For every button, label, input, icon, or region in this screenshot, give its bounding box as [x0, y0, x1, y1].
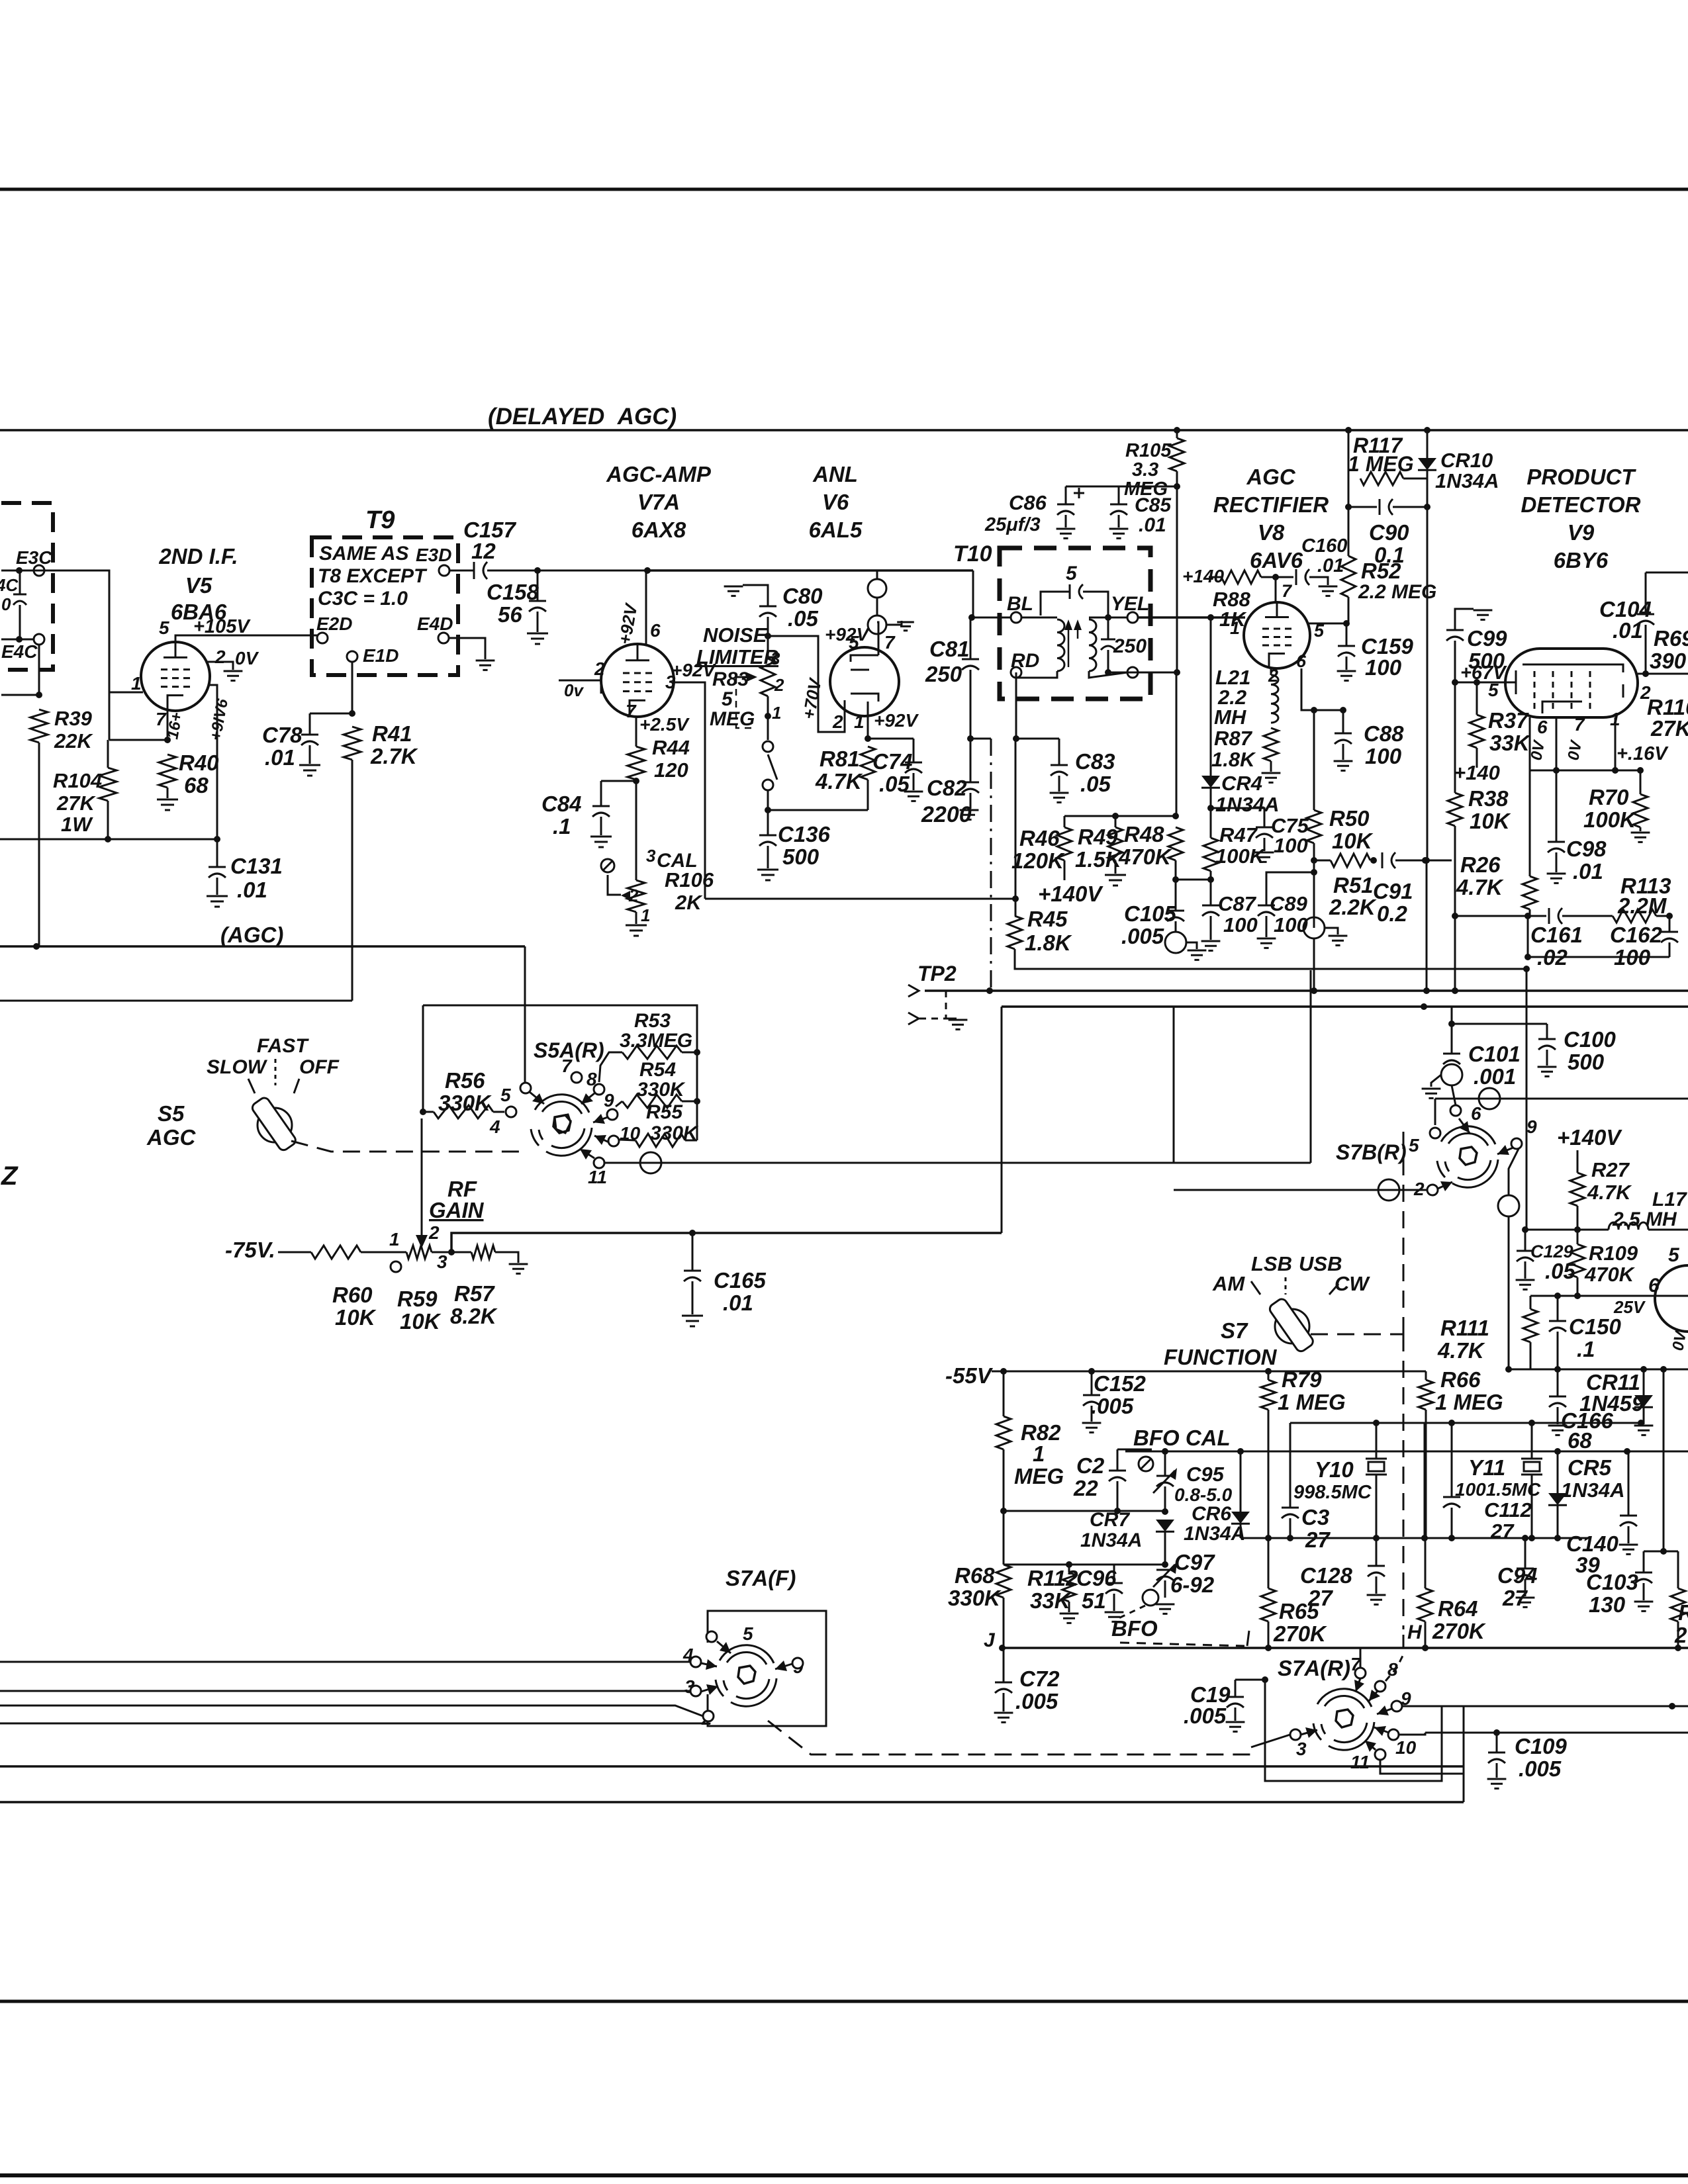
wire R38 lower — [1454, 826, 1456, 916]
label R83 — [712, 668, 749, 690]
wire V9 pin2 — [1638, 673, 1688, 675]
label R54 — [639, 1059, 676, 1081]
label C160 — [1301, 535, 1347, 557]
svg-text:+92V: +92V — [874, 710, 919, 731]
wire 2211b riser — [1463, 1774, 1465, 1802]
resistor R59 pot — [406, 1246, 432, 1259]
label ANL — [812, 462, 858, 486]
wire S7AR 10 out — [1399, 1733, 1425, 1735]
label C100 value — [1568, 1050, 1605, 1074]
junction R51 C91 — [1370, 857, 1377, 864]
svg-text:11: 11 — [588, 1167, 607, 1187]
wire C159 lead — [1346, 623, 1348, 646]
wire E3C to V5 grid — [1, 570, 143, 692]
junction R54 — [694, 1098, 700, 1105]
wire V6 jack link — [876, 598, 878, 615]
svg-text:E3C: E3C — [16, 547, 52, 568]
label S7 — [1221, 1318, 1248, 1343]
ground TP2 — [949, 1020, 968, 1029]
resistor R68 — [996, 1565, 1011, 1598]
wire C19 lower — [1235, 1707, 1237, 1721]
junction R82 top — [1000, 1368, 1007, 1375]
label pin 1 V5 — [131, 673, 142, 694]
wire R105 bottom — [1176, 471, 1178, 672]
svg-text:C97: C97 — [1174, 1550, 1215, 1574]
label R53 value — [620, 1030, 692, 1052]
arrow S7AF 9 — [775, 1661, 792, 1671]
label R66 value — [1435, 1390, 1503, 1414]
resistor R87 — [1264, 728, 1278, 761]
svg-text:5: 5 — [1066, 563, 1078, 584]
label CR11 type — [1579, 1391, 1644, 1416]
resistor R66 — [1419, 1380, 1433, 1410]
junction R50 top — [1311, 707, 1317, 713]
wire C83 lead — [1058, 739, 1060, 765]
wire box bottom V9 — [1528, 956, 1669, 958]
wire R109 top — [1577, 1230, 1579, 1244]
svg-text:10: 10 — [1395, 1737, 1417, 1758]
svg-text:1: 1 — [772, 703, 781, 723]
wire bus corner — [972, 570, 974, 617]
wire C152 lower — [1091, 1406, 1093, 1422]
label C84 — [541, 792, 582, 816]
junction R82 bot — [1000, 1508, 1007, 1514]
wire pin6 down — [1529, 717, 1531, 876]
switch NL dashed — [736, 677, 753, 728]
trimmer arrow R106 — [601, 859, 630, 900]
svg-text:100: 100 — [1274, 834, 1308, 857]
wire R109 bottom — [1577, 1277, 1579, 1296]
transformer T8 dashed box — [1, 503, 53, 670]
svg-text:R106: R106 — [665, 868, 714, 891]
wire BFO CAL bus — [1125, 1451, 1688, 1453]
wire Y10 left lower — [1289, 1518, 1291, 1538]
label R110 — [1647, 695, 1688, 719]
svg-text:68: 68 — [1568, 1428, 1592, 1453]
diode CR4 — [1201, 776, 1220, 788]
wire C82 lower — [970, 793, 972, 809]
ground C83 — [1050, 793, 1069, 802]
label R105 MEG — [1124, 478, 1168, 500]
testpoint TP2 a — [908, 985, 919, 997]
svg-text:R44: R44 — [652, 736, 690, 759]
junction C87 — [1207, 876, 1214, 883]
junction C2 bot — [1114, 1508, 1121, 1514]
wire C72 lower — [1003, 1693, 1005, 1711]
label R88 — [1213, 588, 1251, 611]
label H — [1407, 1621, 1423, 1643]
svg-text:27: 27 — [1490, 1520, 1515, 1543]
label +92V near R83 — [671, 660, 716, 680]
wire R112 C96 top — [1004, 1564, 1114, 1566]
wire CR10 down — [1427, 507, 1429, 860]
label C159 value — [1365, 655, 1402, 680]
label T10 5 — [1066, 563, 1078, 584]
svg-text:(DELAYED AGC): (DELAYED AGC) — [488, 404, 677, 430]
capacitor T10 5pf — [1070, 584, 1083, 599]
svg-text:6: 6 — [650, 620, 661, 641]
wire V7A pin2 long — [600, 680, 602, 694]
wire R45 bottom — [1015, 949, 1526, 969]
svg-text:5: 5 — [722, 688, 733, 710]
wire CR4 to R47 — [1210, 788, 1212, 838]
svg-text:GAIN: GAIN — [429, 1198, 485, 1222]
resistor R48 — [1168, 827, 1183, 860]
wire 2618 bus — [1425, 1732, 1688, 1734]
svg-text:MEG: MEG — [1124, 478, 1168, 500]
svg-text:FUNCTION: FUNCTION — [1164, 1345, 1278, 1369]
wire C131 lower — [216, 878, 218, 895]
junction C84 R44 — [633, 778, 639, 784]
label C166 — [1561, 1408, 1614, 1433]
junction C91 right — [1422, 857, 1429, 864]
resistor R56 — [434, 1105, 493, 1118]
label R83 5 — [722, 688, 733, 710]
svg-text:T10: T10 — [953, 541, 992, 567]
ground C72 — [994, 1713, 1013, 1722]
label C95 value — [1174, 1484, 1233, 1505]
wire R68 bottom — [1003, 1598, 1005, 1648]
wire C83 lower — [1058, 776, 1060, 792]
svg-text:3: 3 — [771, 649, 780, 668]
diode CR11 — [1634, 1395, 1653, 1407]
label 6AL5 — [809, 518, 863, 542]
label +140V right — [1557, 1125, 1622, 1150]
label C83 — [1075, 749, 1115, 774]
label CR10 type — [1435, 469, 1499, 492]
wire Rxx top — [1677, 1551, 1679, 1588]
svg-text:100K: 100K — [1583, 807, 1637, 832]
label R111 — [1440, 1316, 1489, 1340]
wire C91 lead — [1395, 860, 1425, 862]
label 6BY6 — [1554, 548, 1609, 572]
svg-text:6: 6 — [1471, 1103, 1481, 1124]
label R39 — [54, 707, 93, 730]
resistor R113 — [1613, 909, 1656, 923]
svg-text:CR5: CR5 — [1568, 1455, 1612, 1480]
wire long bus 2723 — [0, 1801, 1464, 1803]
arrow contact5 — [530, 1092, 544, 1104]
wire R49 top — [1115, 816, 1117, 827]
label R57 — [454, 1281, 495, 1306]
contact S7AR 7 — [1355, 1668, 1366, 1678]
wire C74 lead — [913, 739, 915, 762]
arrow S7AF 4 — [701, 1659, 717, 1670]
capacitor C162 — [1661, 932, 1678, 942]
wire 2344 row — [1644, 1551, 1678, 1553]
label R65 value — [1273, 1621, 1327, 1646]
wire C100 row — [1452, 1023, 1547, 1025]
svg-text:C2: C2 — [1076, 1453, 1105, 1478]
wire C86 lower — [1065, 515, 1067, 527]
label 0V at V5 — [235, 648, 259, 668]
wire R82 bottom — [1003, 1449, 1005, 1511]
wire C131 lead — [216, 839, 218, 867]
diode CR10 — [1418, 458, 1436, 470]
svg-text:R52: R52 — [1361, 559, 1401, 583]
wire S7 dash riser — [1403, 1132, 1405, 1334]
junction NL C136 — [765, 807, 771, 813]
junction 2324 c — [1373, 1535, 1380, 1541]
ground CR4 — [1244, 772, 1272, 774]
svg-text:C112: C112 — [1484, 1498, 1532, 1522]
ground C140 — [1619, 1545, 1638, 1554]
capacitor C96 — [1105, 1583, 1123, 1594]
svg-text:MEG: MEG — [1014, 1464, 1064, 1488]
junction 2324 f — [1528, 1535, 1535, 1541]
svg-text:2.2 MEG: 2.2 MEG — [1358, 581, 1436, 603]
svg-text:C96: C96 — [1076, 1566, 1117, 1590]
svg-text:0: 0 — [1, 594, 11, 614]
wire R56 left — [423, 1111, 434, 1113]
label E4C — [1, 641, 38, 662]
svg-text:6AL5: 6AL5 — [809, 518, 863, 542]
label R106 — [665, 868, 714, 891]
wire R104 riser — [109, 692, 111, 740]
wire H to bus — [1403, 1635, 1405, 1648]
wire 2578 bus — [1442, 1706, 1688, 1707]
label C87 — [1218, 892, 1257, 915]
resistor R88 — [1221, 570, 1261, 584]
label 5 S7B — [1409, 1135, 1419, 1156]
svg-text:C162: C162 — [1610, 923, 1663, 947]
wire R88 to C160 — [1261, 576, 1293, 578]
junction 2155 a — [1423, 857, 1430, 864]
ground C129 — [1516, 1280, 1535, 1289]
svg-text:1N34A: 1N34A — [1080, 1529, 1142, 1551]
wire S7AF in 2 — [0, 1706, 703, 1716]
svg-text:270K: 270K — [1432, 1619, 1486, 1643]
svg-text:4.7K: 4.7K — [1456, 875, 1504, 899]
wire C129 lead — [1524, 1230, 1526, 1251]
resistor R46 — [1057, 827, 1072, 860]
wire T8 cap — [19, 570, 21, 594]
capacitor C136 — [759, 835, 776, 846]
wire T10 cap right — [1083, 592, 1108, 615]
label C101 value — [1474, 1064, 1516, 1089]
wire R26 down2 — [1527, 916, 1529, 957]
wire V6 top to bus — [876, 570, 878, 579]
wire V8 pin2 — [1270, 667, 1272, 675]
wire R79 bottom — [1268, 1410, 1270, 1538]
resistor R109 — [1570, 1244, 1585, 1277]
wire C80 down — [767, 617, 769, 636]
wire R104 bottom — [107, 801, 109, 839]
label C129 — [1530, 1242, 1573, 1261]
svg-text:Y10: Y10 — [1315, 1457, 1354, 1482]
wire bottom row V9 a — [1455, 915, 1546, 917]
wire T10 prim bottom — [1016, 671, 1057, 678]
crystal Y10 — [1366, 1459, 1387, 1475]
wire YEL2 out — [1108, 672, 1177, 674]
junction J — [999, 1645, 1006, 1651]
label CR4 — [1221, 772, 1262, 795]
wire Y11 left — [1424, 1423, 1426, 1538]
ground C96 — [1105, 1612, 1124, 1621]
label C103 — [1586, 1570, 1638, 1594]
svg-text:.01: .01 — [237, 878, 267, 902]
label pin2 V6 — [832, 711, 843, 732]
svg-text:R27: R27 — [1591, 1158, 1630, 1181]
resistor R54 — [622, 1095, 682, 1108]
wire C136 lead — [767, 810, 769, 835]
wire T8 cap lower — [19, 605, 21, 639]
label C80 value — [788, 606, 819, 631]
svg-text:C99: C99 — [1467, 626, 1507, 651]
junction 2324 g — [1554, 1535, 1561, 1541]
ground E4D — [476, 660, 495, 670]
label L21 MH — [1214, 705, 1246, 729]
wire R66 bottom — [1425, 1410, 1427, 1538]
switch S7A(F) — [716, 1645, 776, 1707]
svg-text:R81: R81 — [820, 747, 860, 771]
arrow S7AR 10 — [1374, 1726, 1389, 1736]
label C3 value — [1305, 1527, 1331, 1552]
svg-text:C88: C88 — [1364, 721, 1404, 746]
svg-text:L17: L17 — [1652, 1189, 1687, 1210]
wire C101 gnd — [1431, 1075, 1441, 1087]
wire S7AR 8 lead — [1385, 1655, 1403, 1681]
label BFO CAL — [1133, 1426, 1231, 1450]
label T8 cap val cut — [1, 594, 11, 614]
label Y11 — [1468, 1455, 1505, 1480]
ground C85 — [1109, 529, 1129, 538]
wire R105 lower — [1176, 672, 1178, 816]
svg-text:R53: R53 — [634, 1010, 671, 1032]
jack C105 — [1165, 932, 1186, 953]
capacitor C140 — [1620, 1516, 1637, 1526]
wire (delayed agc) bus — [0, 429, 1688, 432]
diode CR6 — [1231, 1512, 1250, 1524]
svg-text:0V: 0V — [235, 648, 259, 668]
label 3 S7AF — [684, 1676, 695, 1697]
wire V6 pin2 left — [768, 636, 845, 732]
label CR7 type — [1080, 1529, 1142, 1551]
inductor L21 — [1271, 675, 1278, 723]
svg-text:270K: 270K — [1273, 1621, 1327, 1646]
wire CR5 bottom — [1557, 1505, 1559, 1538]
svg-text:1 MEG: 1 MEG — [1278, 1390, 1346, 1414]
wire C84 lower — [600, 817, 602, 835]
junction R112 top — [1066, 1561, 1072, 1568]
label pin6 V9 — [1537, 717, 1548, 737]
junction R79 top — [1265, 1368, 1272, 1375]
label -75V — [225, 1238, 275, 1262]
label R26 value — [1456, 875, 1504, 899]
ground C131 — [207, 896, 228, 907]
capacitor C81 — [962, 659, 979, 670]
label S7A(R) — [1278, 1656, 1350, 1680]
terminal YEL2 — [1127, 667, 1138, 678]
wire pin7 row — [109, 739, 167, 741]
wire C166 lower — [1557, 1407, 1559, 1424]
label C109 value — [1519, 1756, 1562, 1781]
svg-text:51: 51 — [1082, 1588, 1106, 1613]
wire C160 gnd — [1309, 577, 1328, 585]
svg-text:C160: C160 — [1301, 535, 1347, 557]
label +140 V8 — [1182, 566, 1224, 586]
svg-text:3: 3 — [1296, 1739, 1307, 1759]
label T9 — [365, 506, 395, 534]
ground C74 — [904, 792, 923, 801]
wire C87 row — [1176, 879, 1211, 881]
capacitor C74 — [905, 762, 922, 773]
label C162 — [1610, 923, 1663, 947]
resistor R51 — [1331, 854, 1370, 867]
svg-text:J: J — [984, 1629, 996, 1651]
wire NL mid — [767, 696, 769, 716]
wire C89 lower — [1266, 916, 1268, 937]
wire C86 C85 bus — [1066, 486, 1177, 488]
label +105V — [193, 616, 251, 637]
svg-text:4C: 4C — [0, 575, 19, 595]
svg-text:V7A: V7A — [637, 490, 680, 514]
label C72 — [1019, 1666, 1060, 1691]
arrow S7AR 8 — [1369, 1690, 1380, 1701]
resistor R64 — [1418, 1588, 1432, 1621]
label C85 — [1135, 494, 1172, 516]
label C160 value — [1317, 555, 1344, 576]
label pin6 V8 — [1296, 651, 1307, 671]
label J — [984, 1629, 996, 1651]
label S5A(R) — [534, 1038, 604, 1062]
ground C100 — [1538, 1067, 1557, 1076]
junction 1958 a — [1554, 1293, 1561, 1299]
wire jack gnd — [886, 621, 902, 625]
label C96 value — [1082, 1588, 1106, 1613]
svg-text:E4D: E4D — [417, 614, 453, 634]
wire S5 dashed link — [291, 1141, 523, 1152]
switch blade NL — [768, 754, 777, 780]
wire pin1 stem — [1615, 717, 1617, 770]
wire T10 cap left — [1041, 592, 1070, 615]
label E4D — [417, 614, 453, 634]
label C75 value — [1274, 834, 1308, 857]
svg-text:11: 11 — [1350, 1752, 1370, 1772]
capacitor C128 — [1368, 1566, 1385, 1576]
resistor R65 — [1261, 1588, 1276, 1621]
terminal E4D — [438, 633, 449, 643]
capacitor C166 — [1549, 1396, 1566, 1407]
svg-text:7: 7 — [1574, 714, 1585, 735]
label R47 — [1219, 823, 1258, 846]
label R38 — [1468, 786, 1509, 811]
label R54 value — [637, 1079, 686, 1101]
capacitor C85 — [1110, 504, 1127, 515]
junction C152 top — [1088, 1368, 1095, 1375]
capacitor C2 — [1109, 1471, 1126, 1481]
ground C94 — [1516, 1598, 1535, 1607]
svg-text:R54: R54 — [639, 1059, 676, 1081]
wire R104 mid — [107, 740, 109, 768]
label R48 value — [1118, 844, 1172, 869]
label pin5 V8 — [1314, 621, 1325, 641]
junction R52 top — [1345, 504, 1352, 510]
label R27 — [1591, 1158, 1630, 1181]
junction ybus c — [1528, 1420, 1535, 1426]
svg-text:9: 9 — [1526, 1116, 1537, 1137]
wire L17 right — [1648, 1229, 1688, 1231]
capacitor C78 — [301, 735, 318, 745]
label C131 — [230, 854, 283, 878]
wire V8 grid down — [1210, 617, 1212, 776]
terminal E2D — [317, 633, 328, 643]
label C95 — [1186, 1463, 1225, 1486]
wire E3D to C157 — [449, 570, 474, 572]
capacitor C152 — [1083, 1395, 1100, 1406]
jack circle lower — [868, 615, 886, 634]
label C82 — [927, 776, 967, 800]
